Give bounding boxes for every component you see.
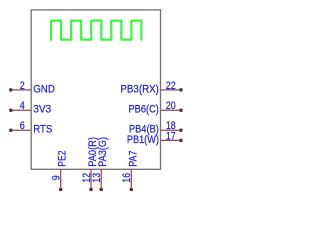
svg-text:4: 4: [20, 100, 25, 112]
svg-text:PB3(RX): PB3(RX): [120, 83, 159, 95]
svg-text:13: 13: [91, 173, 103, 183]
svg-text:17: 17: [166, 130, 176, 142]
svg-text:PA3(G): PA3(G): [97, 137, 109, 167]
svg-text:PB1(W): PB1(W): [127, 134, 159, 146]
svg-text:2: 2: [20, 80, 25, 92]
svg-text:22: 22: [166, 80, 176, 92]
svg-text:3V3: 3V3: [33, 104, 51, 116]
svg-text:PA7: PA7: [127, 151, 139, 167]
svg-text:RTS: RTS: [33, 124, 52, 136]
svg-text:16: 16: [121, 173, 133, 183]
svg-text:20: 20: [166, 100, 176, 112]
svg-text:6: 6: [20, 120, 25, 132]
svg-text:9: 9: [51, 175, 63, 180]
svg-text:PB6(C): PB6(C): [129, 104, 160, 116]
svg-text:PE2: PE2: [57, 151, 69, 167]
svg-text:GND: GND: [33, 83, 55, 95]
